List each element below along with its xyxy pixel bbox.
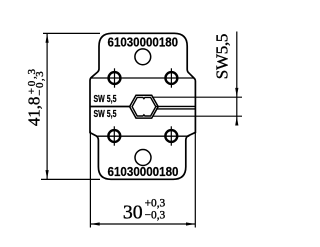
dimension 30 bottom: arrow left <box>90 222 99 225</box>
dimension SW5,5 right: dimension line <box>236 32 238 125</box>
dimension 41,8 left: extension line top <box>43 32 100 34</box>
svg-text:−0,3: −0,3 <box>34 71 46 96</box>
dimension 30 bottom: arrow right <box>186 222 195 225</box>
node top circle <box>135 49 151 65</box>
dimension SW5,5 right: extension line upper <box>152 96 242 98</box>
dimension 30 bottom: extension line left <box>89 131 91 228</box>
svg-text:−0,3: −0,3 <box>145 209 166 221</box>
svg-text:61030000180: 61030000180 <box>108 34 179 49</box>
svg-text:SW5,5: SW5,5 <box>213 34 232 80</box>
svg-text:SW 5,5: SW 5,5 <box>94 109 117 120</box>
part outline <box>90 33 195 179</box>
dimension SW5,5 right: extension line lower <box>153 115 242 117</box>
wire: line through upper hole centers <box>90 77 194 79</box>
dimension 41,8 left: arrow down <box>46 170 49 179</box>
wire: hexagon centre line left <box>90 106 131 108</box>
wire: slot line lower <box>156 108 195 110</box>
dimension 41,8 left: arrow up <box>46 33 49 42</box>
svg-text:30: 30 <box>123 202 143 224</box>
svg-text:SW 5,5: SW 5,5 <box>94 94 117 105</box>
svg-text:41,8: 41,8 <box>24 97 43 127</box>
dimension 30 bottom: extension line right <box>194 131 196 228</box>
dimension 41,8 left: extension line bottom <box>41 178 100 180</box>
hexagon outer <box>130 95 159 118</box>
node bottom circle <box>135 150 151 166</box>
wire: line through lower hole centers <box>96 135 189 137</box>
dimension SW5,5 right: arrow down to upper line <box>235 88 238 97</box>
dimension 30 bottom: dimension line <box>90 223 195 225</box>
node upper-left hole <box>109 68 121 87</box>
svg-text:61030000180: 61030000180 <box>108 164 179 179</box>
svg-text:+0,3: +0,3 <box>145 197 166 209</box>
node upper-right hole <box>165 68 177 87</box>
node lower-right hole <box>165 126 177 145</box>
hexagon inner <box>132 97 156 116</box>
wire: slot line upper <box>156 105 195 107</box>
dimension SW5,5 right: arrow up to lower line <box>235 116 238 125</box>
dimension 41,8 left: dimension line <box>46 33 48 179</box>
node lower-left hole <box>108 126 120 145</box>
